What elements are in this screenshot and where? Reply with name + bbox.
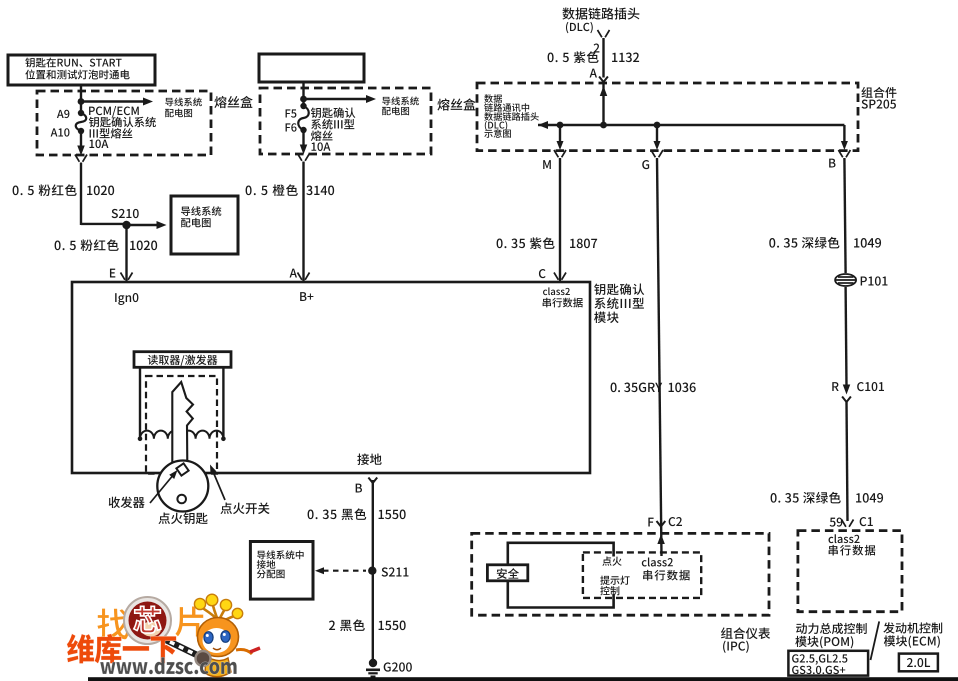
wire below P101 [844,287,847,386]
fuse box 2 (dashed) [260,88,431,154]
ground wire 0.35 black 1550 [372,480,374,662]
wire G to IPC, 0.35GRY 1036 [657,158,662,556]
terminal G [651,150,663,157]
drop to B [843,125,845,143]
junction node [300,96,307,103]
key hole [177,495,186,504]
ground G200 [369,659,377,667]
ground distribution box [250,542,313,600]
PCM models box [788,651,868,676]
wire out of fuse box 2 [302,130,304,146]
ECM label [883,622,942,633]
wire jog to splice S210 [81,223,128,225]
annotation box: key in RUN/START [8,55,155,85]
ignition key label [158,512,207,524]
annotation box 2 (empty) [259,54,364,82]
wire label 0.5 pink 1020 (lower) [55,239,119,251]
wire label 0.5 orange 3140 [246,184,298,196]
transceiver chip [176,463,188,475]
junction nodes on bus [557,122,564,129]
fuse A9/A10: PCM/ECM key confirm system III fuse 10A [78,110,84,116]
watermark: dzsc logo [67,594,260,677]
drop to M [559,125,561,143]
component SP205 (dashed box) [477,83,858,151]
inline connector P101 [835,274,856,286]
label 熔丝盒 (fuse box 2) [437,98,475,110]
terminal M [554,150,566,157]
ignition switch dashed box [146,376,217,474]
powertrain control module PCM (dashed box) [798,531,902,612]
terminal F / C2 [648,518,653,527]
fuse box 1 (dashed) [37,91,211,155]
security indicator box [487,565,527,581]
wire from annotation 2 into fuse F5 [302,82,304,106]
arrow S210 to distribution box [127,224,161,226]
ground label inside module [357,453,381,465]
ignition switch pointer [212,468,226,500]
terminal A [290,269,297,278]
separator slash [871,621,880,660]
connector R / C101 [832,382,838,391]
ignition key blade [172,382,193,464]
terminal C [539,269,546,278]
transceiver pointer [150,474,175,504]
DLC connector label [562,7,639,19]
note: DLC data link schematic [484,94,502,103]
label 熔丝盒 (fuse box 1) [214,96,252,108]
wire label 0.5 pink 1020 (upper) [13,184,77,196]
coil [140,431,223,439]
splice S211 [368,567,376,575]
wire DLC to SP205, 0.5 purple 1132 [602,38,604,78]
wiring inside IPC [508,543,614,565]
reader/exciter box [134,352,231,368]
PCM label [796,623,867,634]
bottom scan bar [88,677,958,681]
splice S210 [122,221,130,229]
wire B to PCM, 0.35 dark green 1049 (upper) [844,158,845,273]
key-confirm module box [72,282,590,473]
junction node [78,98,85,105]
wire from annotation into fuse A9 [80,85,82,113]
terminal B [838,150,850,157]
wire out of fuse box 1 [80,131,82,147]
drop to G [656,125,658,143]
dashed arrow to ground distribution box [323,570,366,572]
ignition indicator control (inner dashed box) [583,552,701,598]
terminal A into SP205 [590,69,597,78]
distribution diagram box [171,196,238,254]
terminal E [110,269,115,278]
ignition key head [157,461,208,512]
bus wire inside SP205 [538,124,844,126]
wire label 0.35 dark green 1049 (lower) [771,492,841,504]
instrument panel cluster IPC (dashed box) [472,533,769,615]
terminal 59 / C1 [830,518,843,527]
module label [594,283,644,295]
terminal 2 of DLC [594,44,600,53]
reader coil leads [139,367,141,439]
wire label 2 black 1550 [329,619,365,631]
wire M to C, 0.35 purple 1807 [559,158,561,281]
terminal B below module [368,478,377,484]
arrow to wiring-system distribution diagram [81,100,148,102]
arrow to wiring-system distribution diagram 2 [304,98,371,100]
ECM model box [899,654,938,672]
fuse F5/F6: key confirm system III fuse 10A [300,103,306,109]
